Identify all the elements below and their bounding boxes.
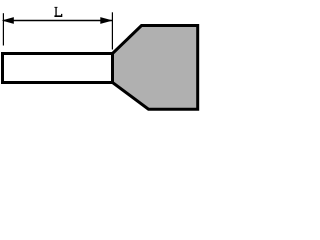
arrowhead right (100, 17, 113, 24)
dimension line (3, 20, 112, 22)
arrowhead left (2, 17, 14, 24)
insulating collar (gray funnel body) (113, 26, 198, 110)
extension line left (2, 13, 4, 45)
extension line right (111, 12, 113, 49)
label L (54, 7, 62, 17)
metal tube (ferrule sleeve) (3, 54, 113, 83)
